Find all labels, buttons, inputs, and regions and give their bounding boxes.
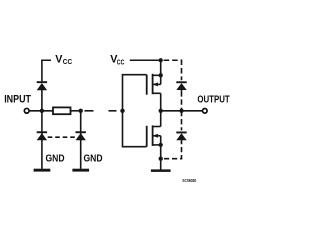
terminal OUTPUT circle — [203, 109, 208, 114]
transistor Q2 NMOS — [147, 125, 161, 146]
wire NMOS bulk/source to ground — [160, 136, 162, 170]
node dot gate input — [120, 109, 124, 113]
node VCC left wire — [42, 60, 51, 81]
svg-text:OUTPUT: OUTPUT — [197, 95, 229, 106]
wire dashed input rail segment 2 — [109, 110, 117, 112]
label VCC left — [55, 53, 73, 66]
svg-text:CC: CC — [63, 57, 73, 66]
node dot VCC right — [159, 58, 163, 62]
node dot junction B after resistor — [79, 109, 83, 113]
diode D3 ground to input (after resistor) — [76, 131, 86, 140]
wire dashed D5 to ground node — [164, 141, 182, 158]
wire PMOS source/bulk to VCC bus — [160, 60, 162, 84]
diode D1 input to VCC — [37, 81, 47, 90]
ground bar left 2 — [72, 169, 89, 172]
label VCC right — [110, 54, 125, 67]
node dot NMOS source — [159, 143, 163, 147]
wire dashed input rail segment 1 — [85, 110, 94, 112]
wire VCC right horizontal — [130, 59, 161, 61]
node dot PMOS source — [159, 73, 163, 77]
terminal INPUT circle — [24, 108, 29, 113]
svg-text:GND: GND — [84, 154, 103, 165]
resistor R1 — [53, 107, 71, 114]
node dot on dashed output branch — [179, 109, 183, 113]
diode D2 ground to input — [37, 131, 47, 140]
ground bar left 1 — [34, 169, 51, 172]
wire PMOS drain to NMOS drain through output — [160, 93, 162, 126]
ground bar right — [151, 169, 171, 172]
node dot ground branch — [159, 157, 163, 161]
node dot output — [159, 109, 163, 113]
diode D4 output to VCC (parasitic) — [176, 81, 186, 91]
wire output line — [161, 110, 203, 112]
svg-text:INPUT: INPUT — [4, 94, 31, 106]
wire dashed between D2 and D3 — [48, 136, 76, 138]
wire input rail left — [29, 110, 53, 112]
node dot input junction A — [40, 109, 44, 113]
wire resistor to node B — [70, 110, 80, 112]
wire VCC-left vertical through diodes to ground — [41, 90, 43, 169]
transistor Q1 PMOS — [147, 74, 161, 95]
wire dashed output node to D5 — [181, 111, 183, 131]
svg-text:GND: GND — [46, 154, 65, 165]
wire dashed VCC to D4 — [164, 60, 182, 80]
wire node B down to diode D3 — [80, 111, 82, 169]
wire dashed D4 to output node — [181, 91, 183, 111]
svg-text:CC: CC — [117, 58, 125, 67]
diode D5 ground to output (parasitic) — [176, 132, 186, 143]
wire gate bracket — [123, 75, 147, 147]
svg-text:SC06030: SC06030 — [182, 178, 196, 184]
